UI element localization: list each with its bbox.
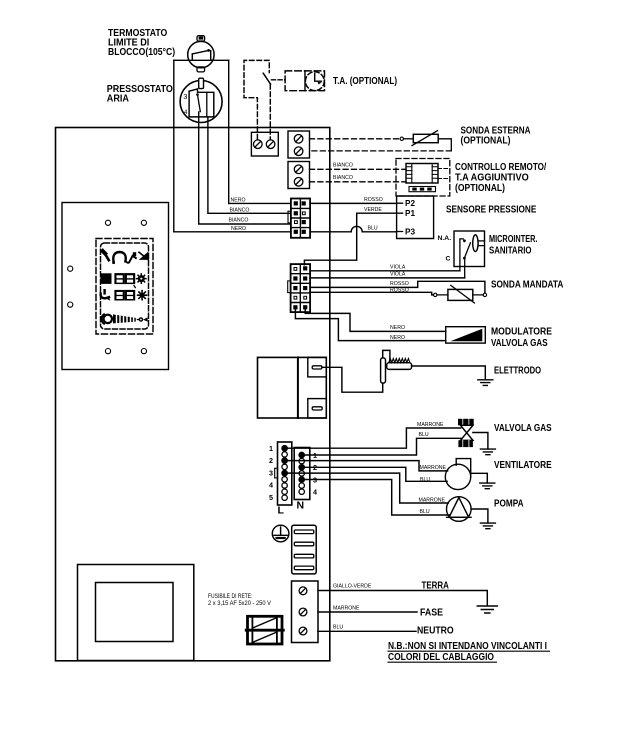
svg-text:BIANCO: BIANCO [333, 175, 353, 181]
svg-text:VALVOLA GAS: VALVOLA GAS [491, 338, 548, 349]
svg-text:GIALLO-VERDE: GIALLO-VERDE [333, 584, 372, 590]
wire NERO top to connector [229, 202, 291, 204]
svg-text:3: 3 [183, 92, 187, 101]
svg-text:ROSSO: ROSSO [364, 197, 383, 203]
svg-text:COLORI DEL CABLAGGIO: COLORI DEL CABLAGGIO [388, 652, 494, 663]
LCD row2: digit 8 (right) [125, 273, 135, 284]
terminal block sonda esterna (2 screws) [288, 131, 310, 158]
LCD display dashed frame (inner) [101, 243, 149, 329]
connector X1 left tab [288, 211, 291, 223]
svg-text:NERO: NERO [390, 325, 405, 331]
wire NEUTRO [318, 630, 416, 632]
svg-text:3: 3 [269, 468, 273, 477]
svg-text:BLU: BLU [333, 625, 343, 631]
bottom-left inner window [96, 583, 174, 642]
bottom-left inner box [78, 565, 194, 661]
dashed wire from external probe (bottom) [310, 150, 452, 152]
wire L3 to pump (MARRONE) [285, 473, 449, 503]
pressure sensor box [397, 196, 434, 239]
svg-text:SONDA MANDATA: SONDA MANDATA [491, 279, 563, 290]
thermostat limit symbol (circle) [188, 41, 214, 67]
remote control module body [406, 164, 438, 184]
connector X1 pins [294, 201, 306, 234]
note N.B. [388, 641, 547, 663]
wire gas valve to ground [473, 433, 488, 449]
external probe NTC resistor [413, 134, 438, 142]
pump symbol [447, 497, 472, 522]
gas valve modulator symbol [446, 327, 486, 343]
svg-text:N.B.:NON SI INTENDANO VINCOLAN: N.B.:NON SI INTENDANO VINCOLANTI I [388, 641, 547, 652]
LCD row4: C paren [102, 314, 104, 323]
label SONDA ESTERNA (OPTIONAL) [461, 125, 531, 146]
wire fan to ground [471, 473, 488, 483]
LCD icons row1: shower icon [129, 256, 136, 262]
mains fuse symbol [248, 616, 283, 644]
terminal block remote control (2 screws) [288, 162, 310, 189]
pressure switch top plug [199, 78, 204, 88]
wire L2 to fan (MARRONE) [285, 461, 448, 471]
svg-text:P3: P3 [405, 228, 415, 237]
svg-text:FUSIBILE DI RETE:: FUSIBILE DI RETE: [208, 593, 253, 600]
LCD row2: black block [101, 273, 112, 284]
svg-text:BIANCO: BIANCO [230, 207, 250, 213]
label PRESSOSTATO ARIA [107, 84, 173, 104]
label MODULATORE VALVOLA GAS [491, 327, 552, 349]
svg-text:CONTROLLO REMOTO/: CONTROLLO REMOTO/ [455, 162, 546, 173]
svg-text:ELETTRODO: ELETTRODO [494, 366, 541, 377]
connector N pins [299, 452, 304, 494]
connector X1 4x2 body [291, 199, 310, 238]
dashed wire to external probe (top) [310, 138, 401, 140]
low voltage connector strip [292, 525, 317, 574]
connector L numbers [269, 444, 273, 502]
LCD row3: digit 8 (left) [114, 290, 124, 301]
svg-text:POMPA: POMPA [494, 497, 524, 509]
wire NERO modulator 2 [295, 309, 445, 340]
connector L left tab [275, 468, 278, 478]
wire transformer to electrode [322, 367, 383, 392]
ground (electrode) [478, 380, 493, 386]
air pressure switch circle [180, 81, 222, 123]
remote control connector strip [409, 187, 436, 192]
wire N3 to pump (BLU) [302, 480, 451, 516]
LCD row4: horn cone [113, 314, 136, 323]
svg-text:BLOCCO(105°C): BLOCCO(105°C) [108, 47, 175, 58]
connector N body [294, 448, 310, 500]
svg-text:P2: P2 [405, 199, 415, 208]
svg-text:VALVOLA GAS: VALVOLA GAS [494, 422, 552, 434]
svg-text:SENSORE PRESSIONE: SENSORE PRESSIONE [446, 205, 537, 216]
T.A. dashed circuit left branch [244, 60, 269, 139]
gas valve symbol [458, 419, 474, 426]
svg-text:BLU: BLU [368, 225, 378, 231]
wire NERO bottom to connector [174, 231, 291, 233]
ground (pump) [480, 523, 495, 529]
LCD icons row1: flag icon [139, 252, 148, 260]
microswitch roller [473, 235, 478, 252]
dashed wire BIANCO 1 [310, 168, 407, 170]
connector L pins [282, 446, 287, 501]
LCD row4: circle [104, 315, 112, 323]
svg-text:VERDE: VERDE [364, 207, 382, 213]
pressure switch lever [196, 93, 199, 96]
ground (mains earth) [477, 606, 497, 613]
ground (gas valve) [480, 449, 495, 455]
label TERMOSTATO LIMITE DI BLOCCO [108, 28, 175, 58]
svg-text:1: 1 [269, 444, 273, 453]
transformer top terminal [308, 357, 327, 377]
remote control dashed enclosure [396, 159, 450, 197]
main board outline (boiler casing) [56, 128, 330, 661]
wire left vertical to NERO [173, 60, 175, 232]
thermostat bottom tab [197, 67, 205, 72]
wire right vertical to NERO [228, 60, 230, 203]
svg-text:NERO: NERO [231, 198, 246, 204]
dashed wire BIANCO 2 [310, 181, 407, 183]
T.A. switch blade [263, 73, 270, 84]
terminal block TA (2 screws) [251, 132, 278, 156]
wire ROSSO 2 [310, 292, 433, 295]
pressure switch inner housing [189, 89, 214, 117]
svg-text:TERRA: TERRA [422, 580, 450, 592]
junction circle [400, 137, 403, 140]
connector L body [278, 442, 292, 505]
label MICROINTER. SANITARIO [489, 234, 538, 257]
thermostat top tab [197, 36, 205, 41]
svg-text:NEUTRO: NEUTRO [417, 625, 454, 637]
LCD icons row1: horseshoe [113, 252, 125, 262]
LCD row4: small valve icon [137, 319, 139, 321]
svg-text:T.A. (OPTIONAL): T.A. (OPTIONAL) [333, 76, 397, 87]
connector X2 5x2 body [291, 264, 311, 312]
label CONTROLLO REMOTO [455, 162, 546, 194]
T.A. dashed wire to timer [272, 79, 286, 81]
svg-text:4: 4 [269, 481, 273, 490]
wire electrode to ground [412, 366, 486, 380]
microswitch C contact and blade [463, 257, 466, 260]
svg-text:ARIA: ARIA [107, 93, 129, 104]
LCD icons row1: wrench [103, 251, 106, 254]
wire ROSSO 1 (over probe) [310, 281, 485, 292]
LCD display dashed frame (outer) [96, 239, 153, 335]
LCD row3: snowflake [138, 291, 147, 300]
connector N numbers [313, 451, 317, 497]
T.A. timer box [285, 71, 324, 91]
svg-text:VIOLA: VIOLA [390, 264, 406, 270]
wire L1 to gas valve (MARRONE) [285, 428, 461, 448]
wire pump to ground [471, 509, 488, 523]
T.A. dashed right branch [269, 85, 271, 140]
svg-text:MODULATORE: MODULATORE [491, 327, 552, 338]
wire ROSSO to P2 [310, 202, 397, 204]
electrode body with teeth [387, 363, 412, 370]
svg-text:BIANCO: BIANCO [333, 163, 353, 169]
wire FASE [318, 611, 417, 613]
svg-text:2 x 3,15 AF 5x20 - 250 V: 2 x 3,15 AF 5x20 - 250 V [208, 600, 272, 607]
LCD row2: digit 8 (left) [114, 273, 124, 284]
svg-text:C: C [446, 256, 451, 263]
LCD row3: digit 8 (right) [125, 290, 135, 301]
wire VERDE to P1 [304, 213, 396, 265]
protective earth symbol [272, 525, 289, 542]
mains terminal block (3 screws) [292, 581, 319, 643]
svg-text:MARRONE: MARRONE [417, 422, 444, 428]
ignition transformer box [258, 357, 327, 418]
electrode staple link [383, 350, 390, 362]
probe return wire [438, 139, 451, 151]
svg-text:ROSSO: ROSSO [390, 287, 409, 293]
microswitch NA contact [460, 239, 463, 271]
wire VIOLA 2 [310, 277, 465, 279]
wire VIOLA 1 [310, 270, 460, 272]
svg-text:BLU: BLU [420, 477, 430, 483]
svg-text:(OPTIONAL): (OPTIONAL) [455, 183, 505, 194]
svg-text:N: N [297, 500, 305, 512]
svg-text:FASE: FASE [420, 607, 443, 619]
wire loop thermostat (left side) [174, 59, 188, 61]
flow probe NTC [434, 293, 437, 296]
pressure switch left leg wire [199, 112, 291, 224]
wire N2 to fan (BLU) [302, 467, 447, 481]
svg-text:BIANCO: BIANCO [229, 217, 249, 223]
ground (fan) [480, 483, 495, 489]
electrode insulator [381, 358, 386, 383]
T.A. timer clock [305, 72, 324, 91]
svg-text:NERO: NERO [390, 335, 405, 341]
svg-text:MARRONE: MARRONE [420, 465, 447, 471]
svg-text:BLU: BLU [420, 509, 430, 515]
svg-text:P1: P1 [405, 209, 415, 218]
svg-text:N.A.: N.A. [438, 235, 452, 242]
pressure switch right leg wire [208, 118, 291, 214]
svg-text:L: L [278, 505, 285, 517]
svg-text:VENTILATORE: VENTILATORE [494, 459, 552, 471]
svg-text:VIOLA: VIOLA [390, 272, 406, 278]
svg-text:5: 5 [269, 493, 273, 502]
thermostat internal switch [188, 50, 214, 60]
svg-text:NERO: NERO [231, 226, 246, 232]
fan symbol [445, 464, 470, 489]
connector X2 left tab [288, 281, 291, 293]
wire BLU to P3 (with jump) [310, 226, 397, 231]
LCD row2: sun gear icon [138, 275, 145, 282]
connector X2 pins [293, 266, 307, 309]
remote control stubs to enclosure [438, 169, 450, 179]
control panel box [62, 203, 169, 370]
svg-text:MICROINTER.: MICROINTER. [489, 234, 538, 245]
LCD row2: comma [134, 286, 135, 288]
svg-text:4: 4 [313, 488, 317, 497]
wire NERO modulator 1 [305, 309, 446, 331]
svg-text:MARRONE: MARRONE [419, 497, 446, 503]
wire N1 to gas valve (BLU) [302, 438, 461, 455]
svg-text:ROSSO: ROSSO [390, 281, 409, 287]
svg-text:MARRONE: MARRONE [333, 605, 360, 611]
microswitch DHW box [454, 231, 485, 267]
svg-text:2: 2 [269, 456, 273, 465]
svg-text:BLU: BLU [419, 432, 429, 438]
svg-text:(OPTIONAL): (OPTIONAL) [461, 135, 511, 146]
wire GIALLO-VERDE to earth [318, 591, 487, 606]
wire loop thermostat (right side) [214, 59, 229, 61]
panel screw holes [68, 220, 147, 354]
transformer bottom terminal [308, 399, 327, 418]
LCD row3: tap icon [103, 290, 105, 293]
svg-text:SANITARIO: SANITARIO [489, 245, 532, 256]
svg-text:T.A AGGIUNTIVO: T.A AGGIUNTIVO [455, 172, 529, 183]
label FUSIBILE DI RETE [208, 593, 272, 607]
